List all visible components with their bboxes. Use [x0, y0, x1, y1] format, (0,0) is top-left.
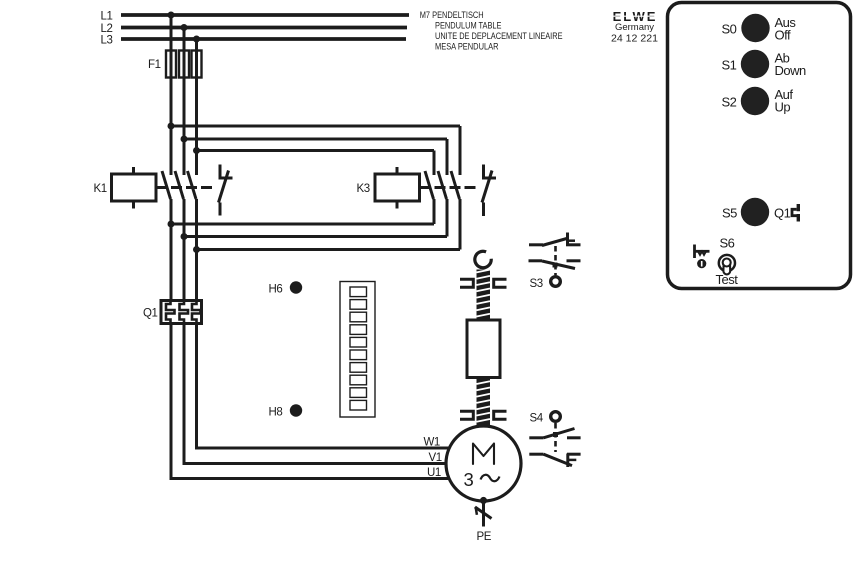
svg-text:U1: U1	[427, 467, 441, 479]
svg-text:S0: S0	[722, 22, 737, 37]
svg-text:M7 PENDELTISCH: M7 PENDELTISCH	[420, 10, 484, 20]
svg-text:L2: L2	[101, 23, 113, 35]
svg-text:Q1: Q1	[774, 206, 791, 221]
svg-text:S1: S1	[722, 58, 737, 73]
svg-text:S4: S4	[530, 413, 544, 425]
svg-text:Down: Down	[775, 63, 807, 78]
svg-text:V1: V1	[429, 452, 442, 464]
svg-text:PE: PE	[477, 531, 492, 543]
svg-text:L1: L1	[101, 11, 113, 23]
svg-text:S5: S5	[722, 206, 737, 221]
svg-text:Off: Off	[775, 27, 791, 42]
svg-text:MESA PENDULAR: MESA PENDULAR	[435, 41, 499, 51]
svg-text:K3: K3	[357, 183, 370, 195]
svg-text:F1: F1	[148, 59, 161, 71]
svg-text:Germany: Germany	[615, 22, 654, 33]
svg-text:3: 3	[464, 469, 474, 490]
svg-text:Q1: Q1	[143, 308, 157, 320]
svg-text:S6: S6	[720, 236, 735, 251]
svg-text:L3: L3	[101, 35, 113, 47]
svg-text:W1: W1	[424, 437, 440, 449]
svg-text:Up: Up	[775, 99, 791, 114]
svg-text:S2: S2	[722, 95, 737, 110]
svg-text:H6: H6	[269, 284, 283, 296]
svg-text:K1: K1	[94, 183, 107, 195]
svg-text:24 12 221: 24 12 221	[611, 34, 658, 45]
svg-text:H8: H8	[269, 406, 283, 418]
svg-text:UNITE DE DEPLACEMENT LINEAIRE: UNITE DE DEPLACEMENT LINEAIRE	[435, 31, 563, 41]
svg-text:S3: S3	[530, 278, 543, 290]
svg-text:PENDULUM TABLE: PENDULUM TABLE	[435, 21, 502, 31]
